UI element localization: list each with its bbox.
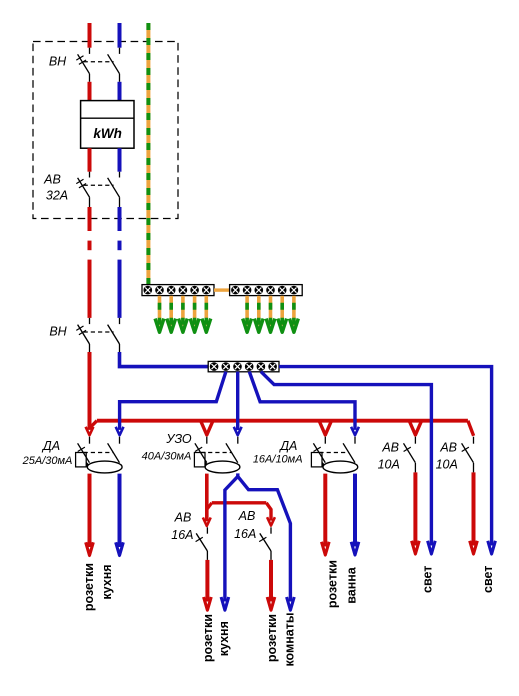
- wire L phase feeder (top): [88, 23, 92, 48]
- wire L: BH2 down to bus: [88, 352, 92, 430]
- arrow L out QF5: [267, 597, 275, 610]
- junction V-drop to QD2 (UZO): [201, 421, 214, 435]
- wire L sub-bus from QD2: [207, 474, 271, 522]
- svg-text:32А: 32А: [46, 189, 68, 203]
- wire N: AB32 down (break): [118, 207, 122, 318]
- enclosure: meter panel dashed box: [33, 42, 178, 219]
- svg-text:10А: 10А: [378, 458, 400, 472]
- wire L out QF2: [413, 472, 417, 545]
- label circuit sockets kitchen 1: [82, 563, 114, 611]
- label QD3: [253, 439, 303, 465]
- wire N: XT3 to QD2 (UZO): [234, 372, 242, 436]
- wire N out QD3: [353, 474, 357, 547]
- breaker QF4 (AB 16A): [196, 527, 208, 560]
- svg-text:свет: свет: [481, 566, 495, 593]
- svg-text:kWh: kWh: [93, 126, 122, 141]
- junction V-drop to QF4: [203, 518, 211, 526]
- wire N neutral feeder (top): [118, 23, 122, 48]
- svg-text:розетки: розетки: [82, 563, 96, 611]
- svg-text:АВ: АВ: [43, 173, 61, 187]
- RCD QD2 (UZO 40A/30mA): [194, 437, 240, 473]
- svg-text:АВ: АВ: [238, 509, 256, 523]
- arrow N light 2: [488, 541, 496, 554]
- label QF5: [234, 509, 256, 541]
- arrow N sockets rooms: [287, 597, 295, 610]
- wire N: BH2 to XT3: [120, 352, 209, 367]
- svg-text:УЗО: УЗО: [165, 432, 192, 446]
- svg-text:АВ: АВ: [439, 441, 457, 455]
- svg-text:25А/30мА: 25А/30мА: [22, 455, 73, 467]
- svg-text:ВН: ВН: [49, 55, 67, 69]
- breaker QF5 (AB 16A): [259, 527, 271, 560]
- label QF3: [436, 441, 458, 472]
- wire N: BH1 to meter: [118, 82, 122, 101]
- arrow L out QF4: [204, 597, 212, 610]
- svg-text:ванна: ванна: [344, 566, 358, 604]
- terminal block XT1 (PE bus 1): [142, 285, 214, 296]
- arrow L sockets bath: [322, 542, 330, 555]
- terminal block XT3 (N bus): [208, 361, 279, 371]
- label circuit light 1: [420, 566, 434, 593]
- switch BH2 (load switch, 2-pole): [76, 318, 119, 352]
- svg-text:16А/10мА: 16А/10мА: [253, 453, 303, 465]
- wire PE earth feeder (orange w/ green stripes): [146, 23, 150, 285]
- wire PE link XT1-XT2: [214, 288, 230, 291]
- label QD2: [142, 432, 192, 463]
- arrow N sockets bath: [351, 542, 359, 555]
- label QD1: [22, 439, 73, 467]
- wires PE drops from XT1: [160, 296, 207, 326]
- wire L: AB32 down (break): [88, 207, 92, 318]
- wire L out QF4: [205, 560, 209, 602]
- wires PE drops from XT2: [247, 296, 294, 326]
- wire L out QF5: [269, 560, 273, 602]
- svg-text:свет: свет: [420, 566, 434, 593]
- svg-text:10А: 10А: [436, 458, 458, 472]
- svg-text:16А: 16А: [171, 528, 193, 542]
- svg-text:комнаты: комнаты: [283, 612, 297, 666]
- label circuit sockets rooms: [265, 612, 296, 666]
- meter PI1 kWh: [81, 101, 134, 149]
- label circuit sockets bath: [326, 560, 359, 608]
- wire N: XT3 to light circuit 2: [279, 367, 492, 546]
- wire N out QD1: [118, 474, 122, 547]
- wire L out QD3: [323, 474, 327, 547]
- breaker QF3 (AB 10A): [462, 437, 474, 473]
- svg-text:розетки: розетки: [265, 614, 279, 662]
- label QF2: [378, 441, 400, 472]
- wire N: XT3 to QD1: [116, 372, 226, 436]
- wire N: XT3 to light circuit 1: [261, 372, 432, 546]
- svg-text:40А/30мА: 40А/30мА: [142, 451, 192, 463]
- svg-text:16А: 16А: [234, 527, 256, 541]
- junction V-drop to QD1: [86, 427, 94, 435]
- label circuit light 2: [481, 566, 495, 593]
- junction V-drop to QD3: [319, 421, 332, 435]
- wire L out QF3: [472, 472, 476, 545]
- wire N: meter to AB32: [118, 148, 122, 172]
- RCBO QD3 (DA 16A/10mA): [311, 437, 357, 473]
- arrow L light 2: [470, 541, 478, 554]
- arrow N light 1: [428, 541, 436, 554]
- svg-text:АВ: АВ: [174, 511, 192, 525]
- svg-text:ВН: ВН: [49, 325, 67, 339]
- junction V-drop to QF5: [267, 517, 275, 525]
- svg-text:кухня: кухня: [100, 564, 114, 599]
- wire L out QD1: [88, 474, 92, 547]
- arrow L sockets kitchen 1: [86, 542, 94, 555]
- wire N split from QD2 to socket groups: [225, 473, 291, 601]
- arrow L light 1: [412, 541, 420, 554]
- label QF4: [171, 511, 193, 543]
- svg-text:ДА: ДА: [278, 439, 297, 453]
- arrows PE outgoing XT2: [243, 319, 299, 333]
- wire L: meter to AB32: [88, 148, 92, 172]
- svg-text:кухня: кухня: [217, 621, 231, 656]
- arrow N sockets kitchen 2: [221, 597, 229, 610]
- junction V-drop to QF2: [409, 421, 422, 435]
- svg-text:ДА: ДА: [41, 439, 60, 453]
- wire L: BH1 to meter: [88, 82, 92, 101]
- arrow N sockets kitchen 1: [116, 542, 124, 555]
- switch BH1 (load switch, 2-pole): [76, 48, 119, 82]
- terminal block XT2 (PE bus 2): [230, 285, 303, 296]
- wire N: XT3 to QD3: [249, 372, 359, 436]
- breaker AB1 32A (2-pole): [76, 172, 119, 207]
- svg-text:розетки: розетки: [326, 560, 340, 608]
- breaker QF2 (AB 10A): [404, 437, 416, 473]
- label circuit sockets kitchen 2: [201, 614, 231, 662]
- label BH2: [49, 325, 67, 339]
- wire L bus (phase distribution): [90, 421, 474, 436]
- svg-text:розетки: розетки: [201, 614, 215, 662]
- label AB1: [43, 173, 68, 203]
- svg-text:АВ: АВ: [381, 441, 399, 455]
- arrows PE outgoing XT1: [155, 319, 211, 333]
- label BH1: [49, 55, 67, 69]
- RCBO QD1 (DA 25A/30mA): [76, 437, 122, 473]
